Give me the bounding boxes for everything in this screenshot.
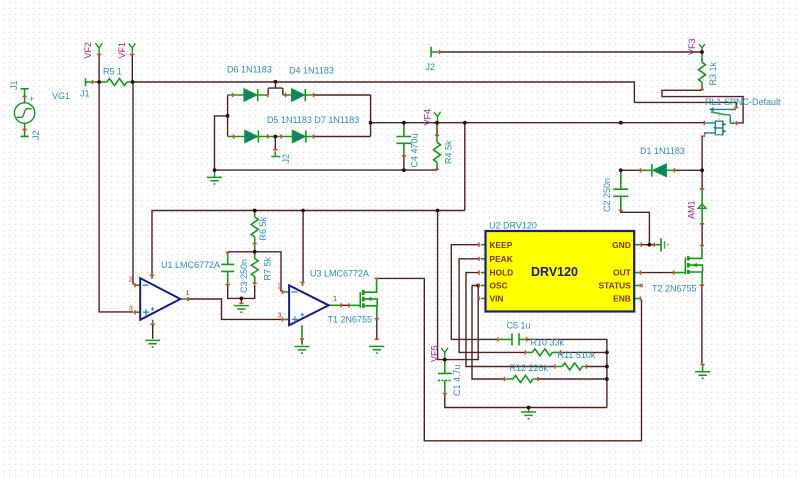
svg-text:3: 3 xyxy=(278,311,282,320)
svg-text:C3 250n: C3 250n xyxy=(239,259,249,293)
svg-text:VF3: VF3 xyxy=(687,38,697,55)
svg-text:DRV120: DRV120 xyxy=(531,265,578,279)
svg-text:R12 226k: R12 226k xyxy=(510,363,549,373)
svg-text:VG1: VG1 xyxy=(52,91,70,101)
svg-text:PEAK: PEAK xyxy=(490,254,513,264)
svg-text:U1 LMC6772A: U1 LMC6772A xyxy=(161,260,220,270)
svg-text:D6 1N1183: D6 1N1183 xyxy=(227,65,272,75)
svg-text:HOLD: HOLD xyxy=(490,268,514,278)
svg-text:VF2: VF2 xyxy=(83,42,93,59)
svg-text:C1 4.7u: C1 4.7u xyxy=(452,364,462,396)
svg-text:U3 LMC6772A: U3 LMC6772A xyxy=(310,269,369,279)
svg-text:GND: GND xyxy=(612,240,631,250)
svg-text:R4 5k: R4 5k xyxy=(444,140,454,164)
svg-text:R3 1k: R3 1k xyxy=(708,61,718,85)
svg-text:D4 1N1183: D4 1N1183 xyxy=(289,66,334,76)
svg-text:2: 2 xyxy=(129,275,133,284)
svg-text:VF5: VF5 xyxy=(430,345,440,362)
svg-text:1: 1 xyxy=(333,294,337,303)
svg-text:J1: J1 xyxy=(80,89,90,99)
svg-text:R7 5k: R7 5k xyxy=(263,256,273,280)
svg-text:D5 1N1183 D7 1N1183: D5 1N1183 D7 1N1183 xyxy=(267,115,359,125)
svg-text:R11 510k: R11 510k xyxy=(558,350,596,360)
svg-text:STATUS: STATUS xyxy=(599,281,632,291)
svg-text:OSC: OSC xyxy=(490,281,508,291)
svg-text:KEEP: KEEP xyxy=(490,240,513,250)
svg-text:J2: J2 xyxy=(281,154,291,164)
svg-text:3: 3 xyxy=(129,304,133,313)
svg-text:T1 2N6755: T1 2N6755 xyxy=(328,315,373,325)
svg-text:VIN: VIN xyxy=(490,294,504,304)
svg-text:VF1: VF1 xyxy=(117,42,127,59)
svg-text:OUT: OUT xyxy=(613,268,632,278)
svg-text:R6 5k: R6 5k xyxy=(258,216,268,240)
svg-text:C4 470u: C4 470u xyxy=(410,133,420,167)
svg-text:C5 1u: C5 1u xyxy=(507,321,531,331)
svg-text:AM1: AM1 xyxy=(687,200,697,219)
svg-text:+: + xyxy=(29,94,34,104)
svg-text:D1 1N1183: D1 1N1183 xyxy=(640,146,685,156)
svg-text:U2 DRV120: U2 DRV120 xyxy=(489,221,537,231)
svg-text:J1: J1 xyxy=(9,80,19,90)
svg-text:VF4: VF4 xyxy=(423,109,433,126)
svg-text:ENB: ENB xyxy=(613,294,631,304)
svg-text:T2 2N6755: T2 2N6755 xyxy=(652,284,697,294)
svg-text:2: 2 xyxy=(278,282,282,291)
svg-text:J2: J2 xyxy=(31,130,41,140)
svg-text:1: 1 xyxy=(186,288,190,297)
svg-text:R10 33k: R10 33k xyxy=(531,338,565,348)
svg-text:C2 250n: C2 250n xyxy=(602,178,612,212)
svg-text:J2: J2 xyxy=(426,62,436,72)
svg-text:RL1 SPNC-Default: RL1 SPNC-Default xyxy=(705,97,781,107)
svg-text:R5 1: R5 1 xyxy=(103,67,122,77)
